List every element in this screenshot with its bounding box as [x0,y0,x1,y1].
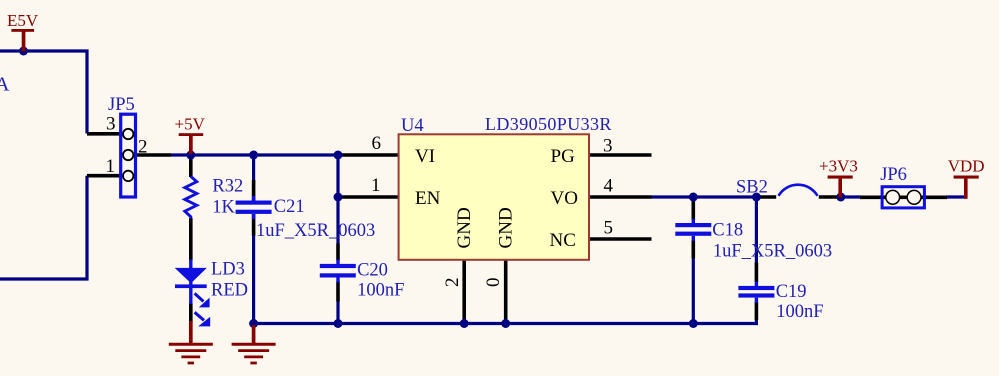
svg-text:C18: C18 [712,220,743,240]
power flag VDD [948,156,985,199]
wire LED to ground [189,303,193,323]
wire gnd rail bottom [254,322,757,325]
svg-text:+3V3: +3V3 [819,156,858,175]
svg-text:PG: PG [551,146,576,167]
svg-text:SB2: SB2 [736,177,768,197]
svg-text:100nF: 100nF [357,281,404,301]
solder bridge SB2 [736,177,818,197]
wire VO net [651,195,756,198]
wire JP5 pin1 down and out left edge [0,176,87,279]
pin JP5.1 stub [87,174,120,178]
wire SB2 to +3V3 to JP6 [841,195,861,198]
capacitor C20 [320,260,405,301]
LED light arrow 1 [195,293,204,301]
svg-text:GND: GND [454,207,475,248]
pin SB2 stubs [756,195,776,199]
pin U4.VO stub [589,195,652,199]
resistor R32 [185,177,243,219]
junction node E5V [19,47,28,56]
pin JP5.2 stub [136,153,171,157]
junction node +5V [186,151,195,160]
wire R32 to LED [189,218,193,261]
power flag +3V3 [819,156,858,197]
wire EN branch vertical [336,155,339,244]
power flag E5V [7,11,39,52]
svg-text:3: 3 [603,136,613,157]
wire E5V net from left edge to JP5 pin3 [0,51,87,134]
svg-text:U4: U4 [401,116,424,136]
pin U4.NC stub [589,237,652,241]
capacitor C21 [236,196,376,241]
LED LD3 [175,260,248,327]
svg-text:6: 6 [372,133,382,154]
power flag +5V [175,115,206,155]
svg-text:2: 2 [138,137,148,158]
wire C21 branch vertical [252,155,255,181]
svg-text:C19: C19 [776,282,807,302]
wire C18 top [692,197,695,204]
wire C19 bottom corner [755,319,758,325]
wire C18 to gnd rail [692,258,695,324]
svg-text:GND: GND [496,207,517,248]
junction node +3V3 [836,193,845,202]
wire C19 top [755,197,758,263]
pin C20 leads [336,244,340,261]
svg-text:NC: NC [550,230,576,251]
pin U4.GND1 stub [462,260,466,324]
svg-text:2: 2 [442,278,463,288]
svg-text:LD3: LD3 [211,260,245,280]
junction node C21 top [249,151,258,160]
svg-text:LD39050PU33R: LD39050PU33R [485,114,612,134]
svg-text:5: 5 [604,218,614,239]
svg-text:1K: 1K [212,197,235,217]
svg-text:E5V: E5V [7,11,39,30]
junction node C18 top [689,193,698,202]
ground GND under LED [169,321,213,363]
wire R32 top lead [189,156,193,177]
junction node gnd rail left [249,319,258,328]
pin C21 leads [252,180,256,201]
junction node EN top [334,151,343,160]
svg-text:1: 1 [106,156,116,177]
ground GND under rail [232,325,276,363]
junction node gnd C20 [334,319,343,328]
capacitor C19 [738,282,823,323]
svg-text:R32: R32 [212,177,243,197]
svg-text:VI: VI [415,146,435,167]
jumper JP6 [880,165,924,208]
svg-text:100nF: 100nF [776,302,823,322]
svg-text:JP5: JP5 [108,95,135,115]
pin U4.PG stub [589,153,652,157]
junction node gnd U4 pin0 [501,319,510,328]
junction node gnd U4 pin2 [460,319,469,328]
svg-text:+5V: +5V [175,115,206,134]
LED light arrow 2 [195,312,204,320]
regulator U4 body [371,114,614,287]
junction node gnd C18 [689,319,698,328]
svg-text:EN: EN [415,188,441,209]
svg-text:A: A [0,74,10,96]
junction node SB2/C19 [752,193,761,202]
pin U4.GND2 stub [504,260,508,324]
wire C21 to gnd rail [252,235,255,324]
wire +5V net horizontal [171,153,339,156]
svg-text:1uF_X5R_0603: 1uF_X5R_0603 [713,241,832,261]
svg-text:1: 1 [371,175,381,196]
svg-text:C20: C20 [357,261,388,281]
pin C19 leads [755,263,759,283]
junction node EN [334,193,343,202]
pin JP6 stubs [860,196,947,200]
svg-text:C21: C21 [274,197,305,217]
wire JP6 to VDD [946,195,966,198]
pin U4.EN stub [338,195,399,199]
svg-text:VDD: VDD [948,156,985,175]
pin U4.VI stub [338,153,399,157]
svg-text:4: 4 [604,176,614,197]
connector JP5 [106,95,148,197]
svg-text:3: 3 [106,114,116,135]
wire C20 to gnd rail [336,301,339,324]
pin C18 leads [691,201,695,220]
svg-text:1uF_X5R_0603: 1uF_X5R_0603 [256,221,375,241]
pin JP5.3 stub [87,132,120,136]
capacitor C18 [675,219,832,261]
svg-text:VO: VO [551,188,578,209]
svg-text:RED: RED [211,280,248,300]
svg-text:JP6: JP6 [880,165,907,185]
svg-text:0: 0 [483,278,504,288]
